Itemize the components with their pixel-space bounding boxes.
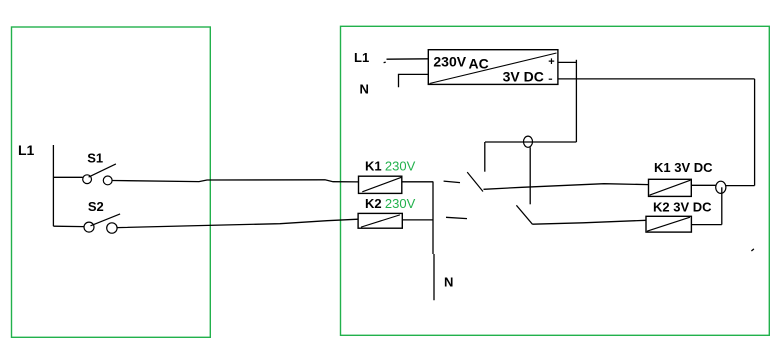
svg-text:K2: K2 <box>365 196 382 211</box>
wire L1 vertical bus (left panel) <box>52 145 54 226</box>
wire + drop <box>575 60 577 142</box>
enclosure box left (switch panel) <box>12 27 211 337</box>
switch S2 right contact circle <box>107 223 117 233</box>
coil K2DC diagonal <box>647 217 690 231</box>
svg-text:L1: L1 <box>354 50 369 65</box>
svg-text:230V: 230V <box>433 54 466 70</box>
coil K1 diagonal <box>362 177 401 192</box>
link dash K1 <box>444 181 460 183</box>
enclosure box right (relay panel) <box>341 26 770 335</box>
power supply U1 box 230V AC to 3V DC <box>428 50 558 85</box>
wire coil K2 output <box>402 219 433 221</box>
power supply U1 diagonal <box>430 53 557 84</box>
wire L1 to converter <box>387 58 429 60</box>
svg-text:230V: 230V <box>385 159 416 174</box>
wire S2 to coil K2 <box>117 219 358 227</box>
wire L1 to S1 <box>53 176 82 178</box>
svg-text:S1: S1 <box>87 151 103 166</box>
coil K1DC box <box>649 179 692 196</box>
svg-text:K1: K1 <box>365 159 382 174</box>
wire L1 to S2 <box>53 225 83 227</box>
stray mark <box>751 249 754 251</box>
contact K1a stub <box>484 142 486 172</box>
svg-text:230V: 230V <box>385 196 416 211</box>
svg-text:L1: L1 <box>18 142 35 158</box>
svg-text:S2: S2 <box>88 199 104 214</box>
svg-text:+: + <box>548 56 554 68</box>
junction node circle B <box>716 181 726 193</box>
coil K1DC diagonal <box>649 180 690 195</box>
contact K1a arm <box>467 172 483 191</box>
switch S1 right contact circle <box>103 176 112 185</box>
svg-text:N: N <box>360 82 369 97</box>
svg-text:K1 3V DC: K1 3V DC <box>654 160 713 175</box>
svg-text:3V DC: 3V DC <box>503 69 544 85</box>
wire + feed to contacts <box>485 141 576 143</box>
switch S2 arm <box>91 214 121 226</box>
wire contact K1a to coil K1DC <box>484 184 649 190</box>
wire contact K2a to coil K2DC <box>533 220 647 224</box>
coil K1 box <box>359 176 402 193</box>
coil K2 diagonal <box>361 215 400 227</box>
terminal - <box>549 78 552 80</box>
wire L1 tick <box>384 61 386 63</box>
contact K2a arm <box>516 205 532 224</box>
svg-text:K2 3V DC: K2 3V DC <box>653 200 712 215</box>
wire node B to - drop <box>726 185 755 187</box>
wire - output <box>558 78 755 80</box>
link dash K2 <box>446 217 467 218</box>
svg-text:N: N <box>444 275 453 290</box>
coil K2DC box <box>646 216 691 232</box>
wire coil K1DC to node B <box>691 184 716 186</box>
wire node A drop <box>529 147 531 204</box>
junction node circle A <box>524 136 533 147</box>
wire coil K1 output <box>402 181 434 183</box>
wire node B drop to K2DC <box>721 187 723 224</box>
switch S2 left contact circle <box>84 222 94 232</box>
coil K2 box <box>358 213 402 228</box>
switch S1 arm <box>89 164 116 177</box>
wire + output <box>558 61 577 63</box>
wire S1 to coil K1 <box>112 180 358 182</box>
wire N to converter <box>399 74 429 87</box>
wire N drop <box>433 182 434 300</box>
wire coil K2DC output <box>691 224 721 226</box>
switch S1 left contact circle <box>83 175 92 184</box>
wire - drop <box>754 79 756 186</box>
svg-text:AC: AC <box>469 56 489 72</box>
